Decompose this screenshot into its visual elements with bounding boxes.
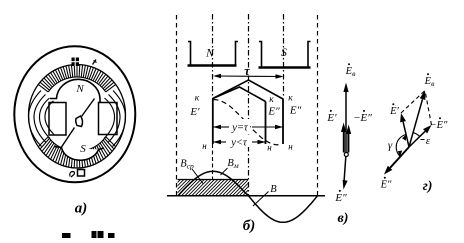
phasor E_B (resultant, up): [345, 86, 347, 153]
svg-text:−E″: −E″: [430, 120, 448, 131]
dashed sine connection curve K to H: [214, 100, 279, 145]
pole N shoe (top dome): [57, 79, 101, 98]
parallelogram dashed side 1: [401, 91, 425, 114]
svg-text:E″: E″: [380, 180, 392, 191]
rotor shaft diagonal (upper part): [82, 99, 95, 117]
svg-text:в): в): [338, 211, 349, 226]
field coil left (rectangle): [49, 103, 66, 136]
dimension y=tau: [214, 126, 230, 128]
svg-text:Вср: Вср: [180, 159, 194, 171]
field coil right (rectangle): [99, 103, 118, 135]
rotor shaft diagonal (lower part): [62, 128, 75, 148]
leader B: [253, 192, 269, 207]
svg-text:Вм: Вм: [227, 158, 238, 170]
yoke inner ring: [29, 65, 126, 169]
phasor E" (down-left): [390, 147, 409, 168]
svg-text:γ: γ: [388, 140, 393, 152]
tau label: [244, 68, 252, 76]
svg-text:н: н: [202, 141, 207, 151]
center reference line between poles (dash-dot): [248, 14, 250, 196]
brush mark top-right: [93, 60, 97, 65]
caption fragment 3: [98, 231, 104, 238]
angle arc gamma: [396, 135, 406, 157]
reference line left boundary (dashed): [176, 15, 178, 196]
stator slot band (top, hatched): [38, 65, 115, 92]
svg-text:к: к: [195, 94, 200, 104]
terminal mark (bottom): [78, 170, 85, 177]
brush squiggle (bottom-left): [70, 172, 75, 178]
phasor -E" (up, right of pair): [347, 130, 349, 153]
reference line right boundary (dashed): [317, 15, 319, 196]
svg-text:N: N: [205, 48, 215, 60]
svg-text:E′: E′: [326, 112, 337, 124]
coil side K left (conductor): [212, 98, 214, 144]
coil end curves left (nested C arcs): [28, 91, 54, 147]
shaft section D symbol: [76, 116, 83, 127]
dimension y<tau: [214, 141, 227, 143]
flux density curve positive half-wave: [178, 171, 248, 196]
terminal box symbol (top): [72, 58, 80, 67]
pole S shoe (bottom dome): [62, 148, 99, 161]
stator slot band (bottom, hatched): [38, 137, 115, 168]
pole pitch arrow tau: [215, 75, 282, 78]
axis line of N pole (dash-dot): [212, 14, 214, 98]
svg-text:г): г): [423, 179, 433, 194]
svg-text:н: н: [267, 143, 272, 153]
origin point: [344, 153, 348, 157]
svg-text:E″: E″: [334, 192, 347, 204]
phasor E" (down): [344, 157, 346, 185]
svg-text:N: N: [75, 83, 84, 95]
svg-text:к: к: [269, 95, 274, 105]
svg-text:а): а): [75, 201, 88, 217]
axis line of S pole (dash-dot): [283, 14, 285, 99]
svg-text:ε: ε: [426, 136, 431, 147]
svg-text:S: S: [80, 143, 86, 155]
svg-text:−E″: −E″: [353, 112, 372, 124]
svg-text:E′: E′: [389, 106, 399, 117]
caption fragment 2: [92, 231, 97, 238]
coil end curves right (nested C arcs): [104, 91, 126, 147]
svg-text:В: В: [270, 184, 277, 195]
svg-text:E″: E″: [289, 105, 302, 117]
svg-text:б): б): [243, 218, 255, 234]
pole N bracket: [188, 42, 239, 66]
full-pitch turn end connection (outer roof): [213, 80, 283, 99]
machine outer frame (yoke outer circle): [14, 46, 135, 182]
svg-text:E″: E″: [267, 106, 280, 118]
svg-text:Eв: Eв: [345, 66, 356, 78]
short-pitch turn end connection (inner roof): [213, 87, 266, 102]
phasor E' (up, left of pair): [343, 128, 345, 153]
phasor E_B (resultant): [409, 99, 423, 147]
coil side K right short-pitch (conductor): [265, 102, 267, 145]
pole S bracket: [259, 42, 311, 68]
svg-text:τ: τ: [244, 64, 250, 78]
caption fragment 1: [62, 233, 71, 238]
label background patches: [230, 119, 251, 132]
flux density curve negative half-wave: [249, 196, 318, 223]
angle arc epsilon: [413, 133, 420, 137]
svg-text:Eв: Eв: [424, 76, 435, 88]
leader B_cp: [192, 169, 203, 184]
svg-text:E′: E′: [189, 106, 200, 118]
average flux density rectangle top edge: [178, 179, 249, 181]
caption fragment 4: [108, 233, 115, 238]
leader B_m: [221, 168, 228, 175]
axis line of N pole lower segment (dashed): [212, 144, 214, 179]
flux density axis: [167, 195, 325, 197]
phasor E': [403, 122, 409, 147]
svg-text:у<τ: у<τ: [230, 138, 248, 149]
phasor -E": [409, 131, 425, 147]
svg-text:у=τ: у=τ: [231, 123, 249, 134]
parallelogram dashed side 2: [425, 91, 432, 126]
coil side K right full-pitch (conductor): [282, 99, 284, 144]
svg-text:S: S: [281, 47, 287, 59]
svg-text:н: н: [288, 142, 293, 152]
svg-text:к: к: [288, 94, 293, 104]
